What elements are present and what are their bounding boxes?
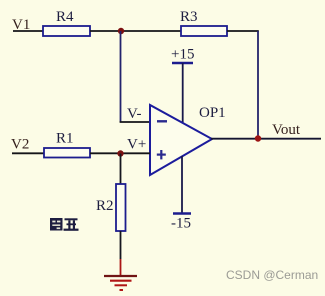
wire R2 to ground (black part) [120,231,122,259]
wire R1 to op-amp plus [90,152,150,154]
svg-text:CSDN @Cerman: CSDN @Cerman [226,268,318,282]
wire V- horizontal into op-amp [120,121,150,123]
power -15 [171,214,191,232]
wire R2 to ground (red part) [120,259,122,276]
svg-text:R3: R3 [180,9,198,25]
svg-text:OP1: OP1 [199,105,226,121]
resistor R4 [43,26,90,36]
junction at R4/R3/feedback [118,28,124,34]
svg-text:R1: R1 [56,131,74,147]
ground [104,276,137,290]
resistor R1 [44,148,90,158]
wire output to Vout [211,138,321,140]
wire V1 to R4 [13,30,44,32]
op-amp OP1 [150,105,212,175]
wire feedback vertical [120,31,122,122]
power +15 [171,47,194,64]
svg-text:V+: V+ [127,137,146,153]
junction V+ [117,150,123,156]
svg-text:R2: R2 [96,198,114,214]
wire R4 to R3 [90,30,182,32]
wire +15 to op-amp top [182,63,184,124]
caption 圖五 [50,218,79,231]
resistor R2 [116,184,126,231]
svg-text:-15: -15 [171,216,191,232]
svg-text:R4: R4 [56,9,74,25]
svg-text:+15: +15 [171,47,194,63]
wire R3 to right corner [227,30,259,32]
svg-text:V-: V- [127,106,141,122]
svg-text:Vout: Vout [272,122,301,138]
resistor R3 [181,26,227,36]
wire junction down to R2 [120,154,122,186]
svg-text:V1: V1 [12,17,30,33]
wire op-amp bottom to -15 [181,156,183,214]
wire right vertical down to output [257,31,259,139]
svg-text:V2: V2 [11,137,29,153]
junction output/feedback [255,135,261,141]
wire V2 to R1 [12,152,45,154]
